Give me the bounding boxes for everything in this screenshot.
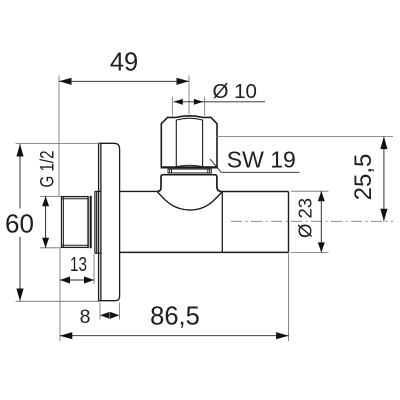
- knob bottom chamfer arc: [176, 165, 202, 166]
- wall flange rosette: [99, 143, 120, 300]
- dim 25,5 line: [383, 137, 385, 222]
- inlet pipe top between flange and body: [120, 190, 158, 192]
- svg-text:Ø 23: Ø 23: [295, 198, 316, 238]
- dim G1/2 line: [45, 196, 47, 248]
- outlet centerline: [231, 220, 393, 222]
- outlet pipe: [222, 192, 289, 253]
- body bottom line flange to outlet end: [120, 251, 289, 253]
- knurled ring under knob: [168, 169, 211, 173]
- dim 60 arrows: [16, 144, 23, 301]
- body bonnet band with shoulders: [157, 175, 222, 192]
- svg-text:49: 49: [110, 49, 138, 77]
- hex knob SW19 outline: [161, 116, 217, 168]
- dim G1/2 arrows: [42, 196, 49, 248]
- dim 86,5 line: [60, 335, 289, 337]
- dim 25,5 top extension line: [217, 136, 394, 138]
- svg-text:60: 60: [5, 209, 34, 239]
- body dome curve: [157, 192, 222, 211]
- dim 49 arrows: [59, 78, 189, 85]
- body end vertical boundary: [221, 192, 223, 252]
- dim G1/2 extension lines: [40, 195, 61, 197]
- dim D23 line: [320, 191, 322, 252]
- dim D23 arrows: [318, 191, 325, 252]
- dim D10 arrows: [174, 99, 204, 105]
- svg-text:86,5: 86,5: [150, 303, 200, 331]
- dim D10 extension lines: [171, 97, 173, 116]
- svg-text:8: 8: [80, 306, 91, 328]
- dim 13 arrows: [60, 276, 94, 283]
- svg-text:SW 19: SW 19: [227, 147, 296, 173]
- knob top chamfer arc: [176, 118, 202, 120]
- dim D23 extension lines: [291, 190, 329, 192]
- svg-text:25,5: 25,5: [350, 154, 377, 201]
- knob bottom thick edge: [161, 166, 218, 168]
- dim 25,5 arrows: [380, 137, 387, 222]
- knob hex facet lines: [176, 120, 202, 167]
- label SW 19 leader: [210, 159, 300, 172]
- svg-text:G 1/2: G 1/2: [38, 151, 59, 188]
- dim 13 extension lines: [59, 249, 61, 342]
- thread end collar band: [88, 196, 91, 248]
- dim 8 arrows: [100, 312, 120, 319]
- neck cylinder behind flange: [95, 191, 101, 253]
- svg-text:13: 13: [70, 254, 87, 276]
- dim D10 line and leader: [174, 101, 266, 103]
- valve wall thread G1/2 nipple: [62, 197, 89, 248]
- dim 49 line: [59, 80, 189, 82]
- dim 8 extension lines: [99, 303, 101, 320]
- dim 60 line: [19, 144, 21, 209]
- dim 86,5 extension line right: [288, 254, 290, 342]
- dim 49 extension lines: [58, 76, 60, 197]
- dim 60 extension lines: [16, 143, 101, 145]
- svg-text:Ø 10: Ø 10: [213, 80, 257, 103]
- dim 13 line: [60, 279, 94, 281]
- dim 86,5 arrows: [60, 332, 289, 339]
